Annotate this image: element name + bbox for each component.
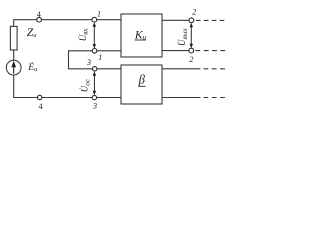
svg-text:U̇вых: U̇вых — [177, 28, 189, 46]
svg-text:4: 4 — [37, 10, 41, 19]
wire Z to source — [13, 50, 15, 60]
svg-text:3: 3 — [92, 102, 97, 111]
source Ėи circle — [6, 60, 21, 75]
wire dashed second right — [196, 50, 228, 52]
source Ėи arrow — [11, 61, 16, 74]
wire feedback output bottom — [162, 97, 200, 99]
wire source to bottom rail — [14, 75, 121, 98]
svg-text:3: 3 — [86, 58, 91, 67]
impedance Zи box — [10, 26, 17, 50]
amplifier block Ku — [121, 14, 162, 57]
svg-text:β: β — [138, 72, 146, 86]
svg-text:2: 2 — [189, 55, 193, 64]
wire feedback output top — [162, 68, 200, 70]
wire series link 1'-3 — [69, 51, 95, 69]
wire amplifier output top — [162, 19, 189, 21]
terminal 2 top — [189, 18, 194, 23]
wire dashed top right — [196, 19, 225, 21]
wire node 3 to feedback — [95, 68, 121, 70]
wire feedback output bottom dashed — [204, 97, 229, 99]
node 1 top — [92, 17, 97, 22]
svg-text:U̇вх: U̇вх — [78, 28, 90, 42]
node 3 top — [93, 67, 97, 71]
svg-text:1: 1 — [97, 9, 101, 18]
wire amplifier output bottom — [162, 50, 189, 52]
wire top rail — [14, 20, 121, 27]
wire feedback output top dashed — [204, 68, 228, 70]
arrow Uвх — [93, 22, 96, 48]
wire node 1' to amplifier — [95, 50, 122, 52]
svg-text:4: 4 — [39, 102, 43, 111]
svg-text:2: 2 — [192, 7, 196, 16]
arrow Uвых — [190, 23, 193, 49]
terminal 2 bottom — [189, 48, 194, 53]
terminal 4 top — [37, 17, 42, 22]
svg-text:Ėи: Ėи — [27, 61, 37, 73]
node 3 bottom — [92, 95, 96, 99]
svg-text:Zи: Zи — [27, 25, 38, 39]
node 1' — [92, 49, 97, 54]
svg-text:U̇ос: U̇ос — [80, 78, 92, 92]
feedback block β — [121, 65, 162, 104]
svg-text:1: 1 — [98, 53, 102, 62]
terminal 4 bottom — [38, 95, 42, 99]
arrow Uос — [93, 71, 96, 95]
